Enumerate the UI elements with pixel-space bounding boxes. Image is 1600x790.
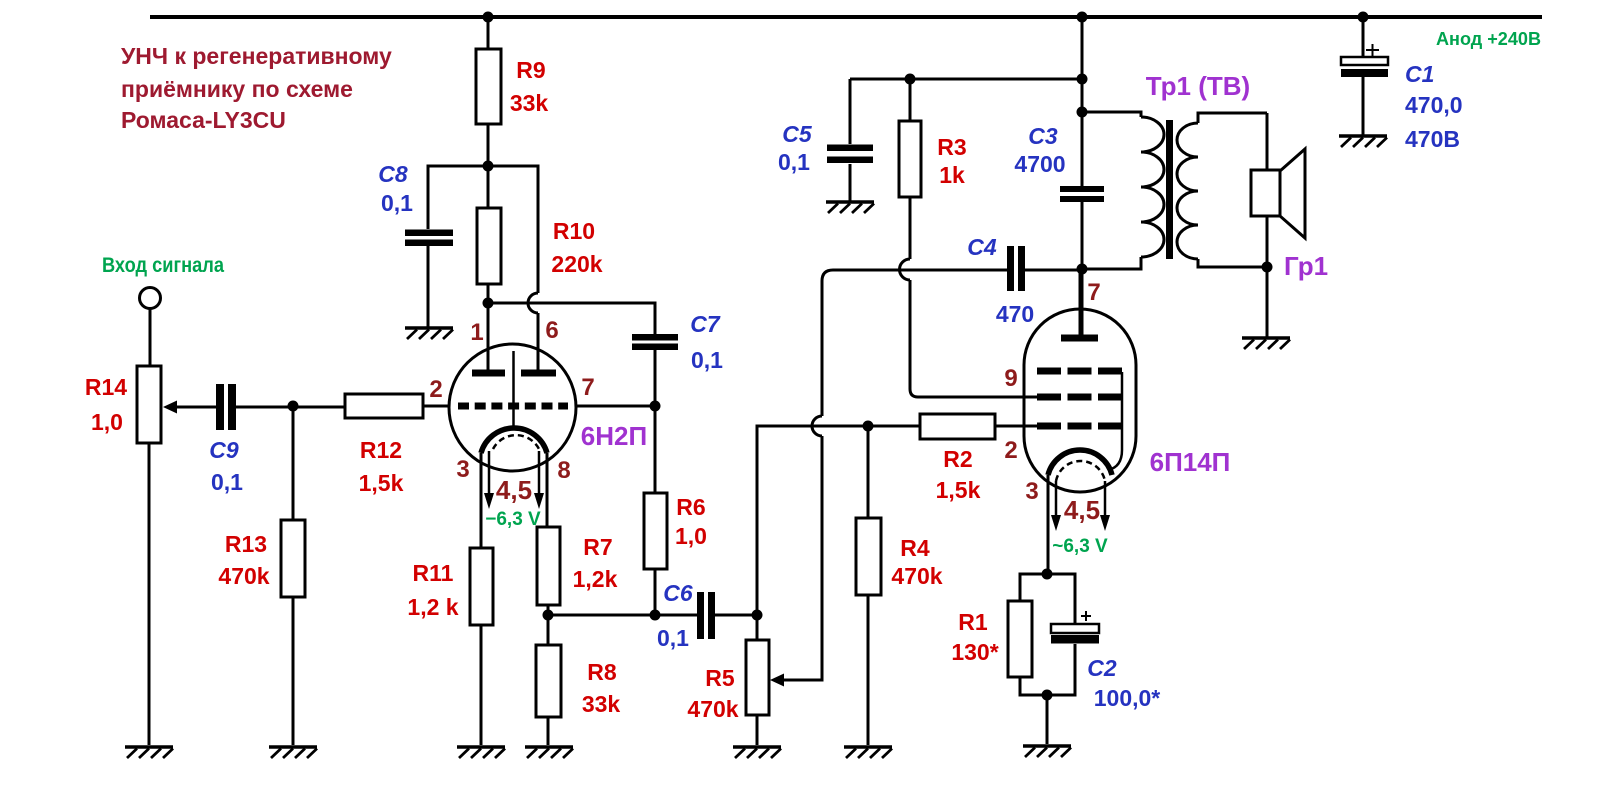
svg-text:R1: R1 (958, 609, 988, 635)
svg-text:R7: R7 (583, 534, 612, 560)
svg-text:R5: R5 (705, 665, 735, 691)
svg-text:R14: R14 (85, 374, 127, 400)
svg-text:C8: C8 (378, 161, 408, 187)
svg-text:2: 2 (429, 376, 442, 403)
svg-text:6: 6 (545, 317, 558, 344)
svg-text:6Н2П: 6Н2П (581, 421, 647, 451)
svg-text:C9: C9 (209, 437, 239, 463)
svg-text:470,0: 470,0 (1405, 92, 1463, 118)
svg-text:Ромаса-LY3CU: Ромаса-LY3CU (121, 107, 286, 133)
svg-text:1,0: 1,0 (675, 523, 707, 549)
svg-text:C4: C4 (967, 234, 997, 260)
svg-text:1,0: 1,0 (91, 409, 123, 435)
svg-text:R11: R11 (413, 560, 454, 586)
svg-text:R6: R6 (676, 494, 705, 520)
svg-text:7: 7 (1087, 279, 1100, 306)
svg-text:1,5k: 1,5k (936, 477, 981, 503)
svg-text:приёмнику по схеме: приёмнику по схеме (121, 76, 353, 102)
svg-text:R4: R4 (900, 535, 930, 561)
svg-text:R8: R8 (587, 659, 617, 685)
svg-text:−6,3 V: −6,3 V (485, 509, 541, 530)
svg-text:~6,3 V: ~6,3 V (1052, 536, 1108, 557)
svg-text:4,5: 4,5 (496, 475, 532, 505)
svg-text:8: 8 (557, 457, 570, 484)
svg-text:Тр1 (ТВ): Тр1 (ТВ) (1146, 71, 1250, 101)
svg-text:470k: 470k (891, 563, 942, 589)
svg-text:R13: R13 (225, 531, 267, 557)
svg-text:C5: C5 (782, 121, 813, 147)
svg-text:220k: 220k (551, 251, 602, 277)
svg-text:470k: 470k (687, 696, 738, 722)
svg-text:33k: 33k (510, 90, 549, 116)
svg-text:130*: 130* (951, 639, 998, 665)
svg-text:7: 7 (581, 374, 594, 401)
svg-text:0,1: 0,1 (691, 347, 723, 373)
svg-text:R12: R12 (360, 437, 402, 463)
svg-text:9: 9 (1004, 365, 1017, 392)
svg-text:3: 3 (456, 456, 469, 483)
svg-text:C2: C2 (1087, 655, 1117, 681)
svg-text:3: 3 (1025, 478, 1038, 505)
svg-text:100,0*: 100,0* (1094, 685, 1161, 711)
svg-text:R2: R2 (943, 446, 972, 472)
svg-text:1k: 1k (939, 162, 965, 188)
svg-text:0,1: 0,1 (657, 625, 689, 651)
svg-text:4,5: 4,5 (1064, 495, 1100, 525)
svg-text:470: 470 (996, 301, 1034, 327)
svg-text:6П14П: 6П14П (1150, 447, 1231, 477)
svg-text:4700: 4700 (1014, 151, 1065, 177)
svg-text:R9: R9 (516, 57, 545, 83)
svg-text:0,1: 0,1 (778, 149, 810, 175)
svg-text:Анод +240В: Анод +240В (1436, 29, 1541, 49)
svg-text:Вход сигнала: Вход сигнала (102, 254, 224, 277)
svg-text:470В: 470В (1405, 126, 1460, 152)
svg-text:C7: C7 (690, 311, 721, 337)
svg-text:1,2 k: 1,2 k (407, 594, 458, 620)
svg-text:C3: C3 (1028, 123, 1058, 149)
svg-text:R10: R10 (553, 218, 595, 244)
svg-text:R3: R3 (937, 134, 966, 160)
svg-text:33k: 33k (582, 691, 621, 717)
svg-text:0,1: 0,1 (381, 190, 413, 216)
svg-text:C1: C1 (1405, 61, 1434, 87)
svg-text:1,2k: 1,2k (573, 566, 618, 592)
svg-text:2: 2 (1004, 437, 1017, 464)
svg-text:1: 1 (470, 319, 483, 346)
svg-text:0,1: 0,1 (211, 469, 243, 495)
svg-text:Гр1: Гр1 (1284, 251, 1328, 281)
svg-text:470k: 470k (218, 563, 269, 589)
svg-text:1,5k: 1,5k (359, 470, 404, 496)
svg-text:УНЧ к регенеративному: УНЧ к регенеративному (121, 43, 392, 69)
svg-text:C6: C6 (663, 580, 693, 606)
